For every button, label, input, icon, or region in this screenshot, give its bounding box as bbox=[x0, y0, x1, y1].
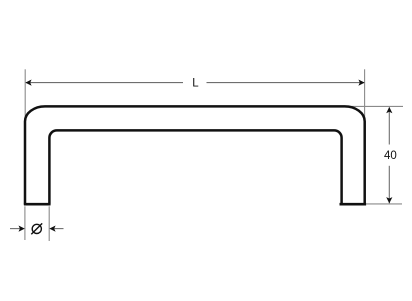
extension line right (diameter) bbox=[48, 206, 50, 241]
left leg end cap bbox=[24, 203, 51, 206]
arrowhead 40 up bbox=[386, 107, 392, 113]
extension line left (diameter) bbox=[24, 206, 26, 240]
arrowhead 40 down bbox=[386, 197, 392, 203]
arrowhead L left bbox=[25, 80, 31, 86]
arrowhead diameter right bbox=[49, 226, 55, 232]
extension line top (40) bbox=[340, 105, 403, 107]
arrowhead L right bbox=[358, 80, 364, 86]
handle outer contour bbox=[25, 106, 365, 204]
extension line bottom (40) bbox=[366, 203, 402, 205]
extension line right (L) bbox=[364, 69, 366, 122]
diameter leader left bbox=[10, 228, 20, 230]
svg-text:40: 40 bbox=[384, 150, 397, 162]
extension line left (L) bbox=[24, 69, 26, 120]
handle inner contour bbox=[49, 130, 341, 204]
svg-text:L: L bbox=[192, 78, 199, 90]
dimension line L right segment bbox=[207, 82, 365, 84]
dimension line 40 lower segment bbox=[388, 166, 390, 204]
diameter symbol circle bbox=[32, 224, 41, 233]
dimension line 40 upper segment bbox=[388, 108, 390, 145]
arrowhead diameter left bbox=[19, 226, 25, 232]
diameter symbol slash bbox=[31, 223, 42, 234]
diameter leader right bbox=[54, 228, 63, 230]
dimension line L left segment bbox=[26, 82, 183, 84]
right leg end cap bbox=[340, 203, 367, 206]
